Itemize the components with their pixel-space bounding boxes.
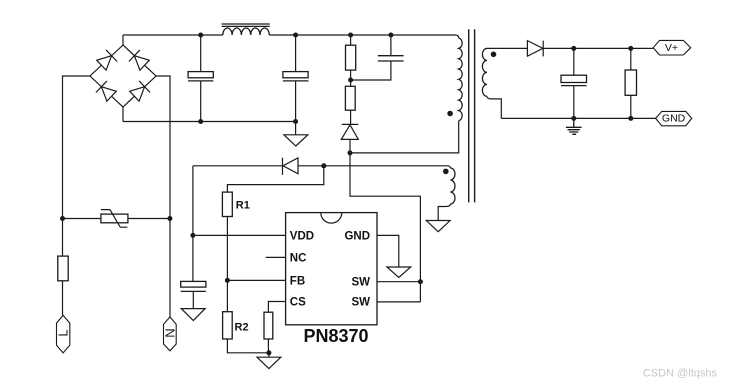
node: GND resistor bottom — [628, 116, 633, 121]
capacitor C1 — [188, 72, 213, 81]
svg-text:VDD: VDD — [290, 230, 314, 242]
op IC U1 PN8370 box — [286, 213, 377, 325]
VDD diode line from aux winding — [298, 166, 450, 168]
capacitor C2 bottom lead — [295, 81, 297, 122]
wire: GND rail — [501, 117, 655, 119]
snubber resistor top lead — [350, 35, 352, 45]
varistor RV1 wire — [63, 218, 171, 220]
bridge diode top-left — [97, 50, 117, 70]
port N — [164, 317, 177, 351]
wire: DC+ rail inductor to primary top — [269, 35, 458, 38]
port GND — [656, 111, 692, 125]
svg-text:GND: GND — [344, 230, 370, 242]
node: GND cap bottom — [571, 116, 576, 121]
node: V+ cap top — [571, 46, 576, 51]
snubber capacitor bottom wire to junction — [351, 61, 391, 80]
wire: aux winding bottom to ground — [438, 204, 450, 221]
svg-text:NC: NC — [290, 252, 307, 264]
node: C2 bottom / primary ground — [293, 119, 298, 124]
wire: GND pin to ground arrow — [377, 235, 399, 267]
snubber capacitor top lead — [390, 35, 392, 56]
wire: CS resistor top to CS pin — [268, 302, 285, 313]
wire: bridge bottom vertex to DC- rail — [122, 107, 124, 122]
resistor R3 (CS sense) — [264, 312, 273, 339]
ground arrow below C3 — [181, 309, 205, 321]
ground arrow below GND pin — [387, 267, 411, 278]
fuse F1 — [58, 256, 68, 281]
snubber resistor Rb — [345, 86, 355, 110]
svg-text:V+: V+ — [665, 42, 678, 54]
wire: fuse to L port — [62, 281, 64, 316]
snubber resistor Rb bottom lead — [350, 110, 352, 124]
node: VDD diode / R1 — [321, 163, 326, 168]
inductor L1 core lines — [222, 24, 270, 26]
transformer T1 primary polarity dot — [447, 111, 453, 117]
resistor R2 — [223, 312, 233, 339]
wire: DC+ rail left segment to inductor — [123, 34, 223, 36]
svg-text:N: N — [162, 328, 177, 337]
node: VDD — [190, 233, 195, 238]
node: snubber RC junction — [348, 78, 353, 83]
node: varistor left — [60, 216, 65, 221]
IC U1 notch — [321, 213, 342, 224]
capacitor C3 bottom lead — [192, 291, 194, 308]
ground arrow below aux winding — [426, 221, 450, 232]
earth ground below C4 — [566, 118, 582, 134]
bridge diode bottom-left — [96, 81, 116, 101]
transformer T1 primary winding — [459, 38, 462, 121]
wire: SW node to primary bottom — [350, 121, 459, 153]
capacitor C2 — [283, 72, 309, 81]
port V+ — [653, 40, 691, 55]
capacitor C4 top lead — [573, 48, 575, 75]
capacitor C1 top lead — [200, 35, 202, 72]
node: SW / primary bottom — [348, 150, 353, 155]
bridge diode bottom-right — [130, 81, 150, 101]
capacitor C1 bottom lead — [200, 81, 202, 122]
wire: bridge top vertex to DC+ rail — [122, 35, 124, 45]
resistor R1 — [222, 192, 232, 216]
wire: R1 bottom to R2 top — [226, 217, 228, 312]
resistor R4 bottom lead — [630, 95, 632, 118]
wire: SW node down and right to SW pins — [350, 153, 420, 302]
wire: L line varistor junction to fuse — [62, 219, 64, 257]
wire: VDD pin wire — [193, 234, 286, 236]
transformer T1 secondary winding — [482, 48, 487, 96]
capacitor C2 top lead — [295, 35, 297, 72]
bridge diode top-right — [129, 50, 149, 70]
inductor L1 — [223, 28, 269, 35]
wire: SW pin lower — [377, 301, 420, 303]
ground arrow below R2/R3 rail — [257, 353, 281, 369]
snubber diode anode lead — [349, 139, 351, 153]
node: C2 top — [293, 33, 298, 38]
transformer T1 auxiliary winding — [450, 168, 455, 204]
svg-text:L: L — [55, 329, 70, 336]
wire: SW pin upper — [377, 281, 420, 283]
port L — [57, 315, 70, 353]
wire: diode D2 cathode to VDD vertical — [193, 165, 283, 167]
wire: bridge left vertex to L line — [63, 76, 91, 219]
snubber resistor Ra — [346, 45, 356, 70]
NC pin stub — [266, 256, 286, 258]
svg-text:FB: FB — [290, 275, 305, 287]
diode D1 (output rectifier, pointing right) — [527, 41, 543, 57]
varistor RV1 — [101, 210, 128, 228]
svg-text:GND: GND — [662, 112, 686, 124]
transformer T1 core — [469, 29, 475, 202]
node: SW pins — [418, 279, 423, 284]
svg-text:PN8370: PN8370 — [303, 326, 368, 346]
node: C1 top — [198, 33, 203, 38]
resistor R4 top lead — [630, 48, 632, 70]
ground arrow at DC- rail — [284, 122, 308, 147]
svg-text:CS: CS — [290, 297, 306, 309]
node: snubber R top — [348, 33, 353, 38]
wire: CS resistor bottom lead — [267, 339, 269, 353]
svg-text:R2: R2 — [235, 322, 249, 334]
wire: VDD vertical line — [192, 166, 194, 282]
wire: secondary top to output diode — [487, 47, 527, 49]
wire: bridge right vertex to N line — [156, 76, 170, 317]
node: FB — [225, 278, 230, 283]
node: varistor right — [167, 216, 172, 221]
wire: V+ rail — [543, 47, 653, 49]
node: snubber C top — [388, 33, 393, 38]
node: C1 bottom — [198, 119, 203, 124]
svg-text:SW: SW — [351, 297, 370, 309]
wire: DC- rail — [123, 121, 296, 123]
node: CS ground rail — [266, 350, 271, 355]
wire: R2 bottom rail to CS resistor — [227, 339, 269, 353]
wire: R1 top wire to diode node — [227, 166, 323, 192]
bridge rectifier BR1 diamond — [90, 45, 156, 107]
wire: secondary bottom to GND rail — [487, 96, 501, 118]
svg-text:SW: SW — [351, 276, 370, 288]
snubber diode Ds — [341, 124, 358, 139]
node: V+ resistor top — [628, 46, 633, 51]
svg-text:CSDN @ltqshs: CSDN @ltqshs — [643, 368, 718, 380]
resistor R4 (preload) — [625, 70, 636, 95]
diode D2 (VDD rectifier, pointing left) — [283, 158, 299, 175]
capacitor C3 (VDD bypass) — [181, 281, 206, 291]
snubber resistor Ra bottom lead — [350, 70, 352, 86]
capacitor C4 (output) — [561, 75, 587, 85]
capacitor C4 bottom lead — [573, 86, 575, 119]
wire: FB pin wire — [227, 279, 285, 281]
transformer T1 auxiliary polarity dot — [443, 169, 449, 175]
transformer T1 secondary polarity dot — [491, 52, 497, 58]
snubber capacitor Cs — [378, 56, 404, 61]
svg-text:R1: R1 — [236, 200, 250, 212]
